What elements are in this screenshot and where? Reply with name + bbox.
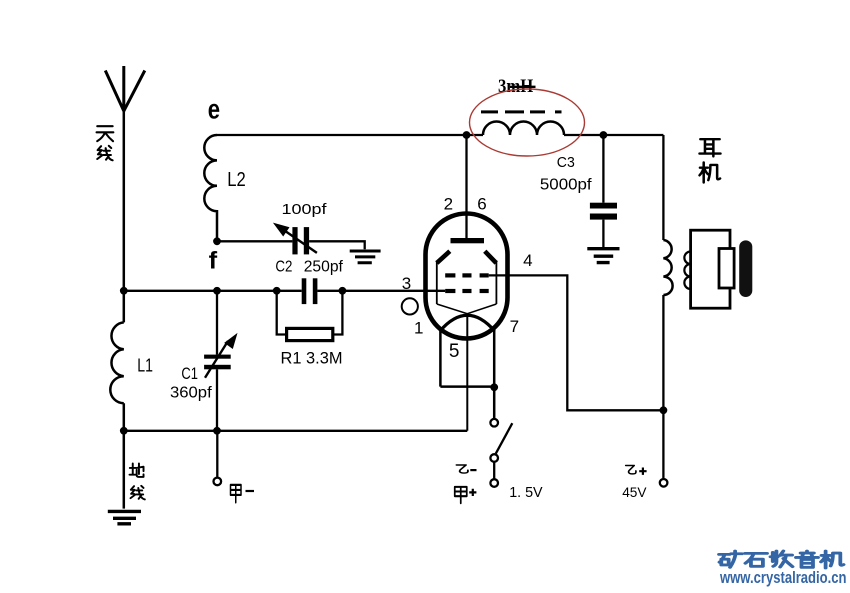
- wire left rail: [123, 111, 126, 509]
- earphone transformer secondary coil: [684, 252, 690, 290]
- tube grid dashes lower row (pin 3): [445, 289, 489, 293]
- label 4: [523, 251, 532, 270]
- svg-text:L2: L2: [227, 169, 246, 191]
- wire bottom rail: [124, 430, 468, 432]
- svg-text:R1 3.3M: R1 3.3M: [281, 349, 343, 368]
- svg-text:1: 1: [414, 318, 423, 337]
- svg-text:250pf: 250pf: [304, 259, 344, 276]
- ground (at C3): [587, 249, 619, 263]
- inductor L1: [110, 322, 123, 403]
- svg-text:C1: C1: [181, 364, 198, 383]
- antenna: [105, 66, 145, 111]
- label 天线 antenna: [97, 126, 114, 160]
- svg-text:3: 3: [402, 274, 411, 293]
- tube anode plate and lead (pin 6): [451, 135, 485, 243]
- watermark 矿石收音机: [719, 551, 844, 568]
- node junction at B+ rail: [660, 406, 668, 414]
- earphone transformer primary coil: [663, 240, 672, 295]
- choke iron core dashed line: [481, 110, 562, 113]
- label R1 3.3M: [281, 349, 343, 368]
- svg-text:360pf: 360pf: [170, 385, 212, 402]
- svg-text:1. 5V: 1. 5V: [509, 484, 542, 501]
- svg-text:4: 4: [523, 251, 532, 270]
- tube grid dashes upper row (pin 4): [445, 273, 489, 277]
- node junction right of choke: [600, 131, 608, 139]
- node f junction: [213, 237, 221, 245]
- svg-text:e: e: [208, 94, 220, 125]
- label 3: [402, 274, 411, 293]
- inductor 3mH choke: [483, 122, 564, 136]
- label C1 360pf: [170, 364, 212, 402]
- wire cathode lead down: [466, 314, 468, 431]
- earphone body: [691, 230, 753, 308]
- label 100pf: [282, 201, 328, 218]
- label 6: [477, 194, 486, 213]
- label 乙- 甲+: [455, 465, 477, 503]
- wire filament legs (pins 5,7): [440, 330, 494, 418]
- label 3mH: [498, 76, 536, 97]
- svg-text:C3: C3: [557, 154, 575, 171]
- label 地线 ground wire: [130, 463, 145, 499]
- label L1: [137, 356, 153, 376]
- svg-text:6: 6: [477, 194, 486, 213]
- inductor L2: [204, 135, 217, 241]
- svg-text:C2: C2: [275, 259, 292, 276]
- node junctions bottom rail: [120, 427, 221, 435]
- terminal 乙+ 45V: [660, 479, 668, 487]
- ground (main, bottom left): [108, 511, 141, 523]
- node filament junction: [490, 383, 498, 391]
- wire top rail: [217, 134, 663, 136]
- red ellipse annotation: [470, 89, 585, 156]
- wire pin 4 to B+ rail: [489, 275, 664, 410]
- wire grid row: [124, 290, 445, 292]
- label 耳机 earphone: [700, 139, 721, 182]
- vacuum tube envelope: [426, 214, 508, 339]
- label C3 5000pf: [540, 154, 592, 194]
- label L2: [227, 169, 246, 191]
- label 1.5V: [509, 484, 542, 501]
- label 2: [444, 194, 453, 213]
- svg-text:f: f: [209, 248, 219, 275]
- svg-text:7: 7: [510, 317, 519, 336]
- tube screen grid wings: [437, 251, 497, 304]
- wire f to ground: [217, 241, 365, 249]
- ground (at 100pf): [350, 251, 381, 263]
- wire right rail: [662, 135, 664, 478]
- label 7: [510, 317, 519, 336]
- node junction left of choke: [463, 131, 471, 139]
- svg-text:100pf: 100pf: [282, 201, 328, 218]
- label 乙+: [626, 466, 647, 475]
- label 甲-: [231, 485, 255, 503]
- svg-text:45V: 45V: [622, 484, 647, 500]
- variable capacitor C1: [204, 291, 237, 431]
- tube cathode V: [437, 304, 497, 314]
- svg-text:5: 5: [449, 341, 460, 362]
- switch: [490, 419, 512, 487]
- label C2 250pf: [275, 259, 343, 276]
- label e: [208, 94, 220, 125]
- watermark url: [719, 568, 846, 587]
- svg-text:2: 2: [444, 194, 453, 213]
- resistor R1: [277, 291, 343, 341]
- svg-text:5000pf: 5000pf: [540, 177, 592, 194]
- label f: [209, 248, 219, 275]
- svg-text:www.crystalradio.cn: www.crystalradio.cn: [719, 568, 846, 587]
- capacitor C3: [590, 135, 617, 248]
- label 45V: [622, 484, 647, 500]
- capacitor C2: [302, 278, 318, 304]
- label 5: [449, 341, 460, 362]
- label 1: [414, 318, 423, 337]
- variable capacitor 100pf: [273, 223, 317, 255]
- terminal 甲- drop: [214, 431, 222, 485]
- tube filament dome: [440, 315, 495, 331]
- svg-text:L1: L1: [137, 356, 153, 376]
- node junctions on grid row: [120, 287, 346, 295]
- tube pin 1 marker circle: [402, 298, 418, 314]
